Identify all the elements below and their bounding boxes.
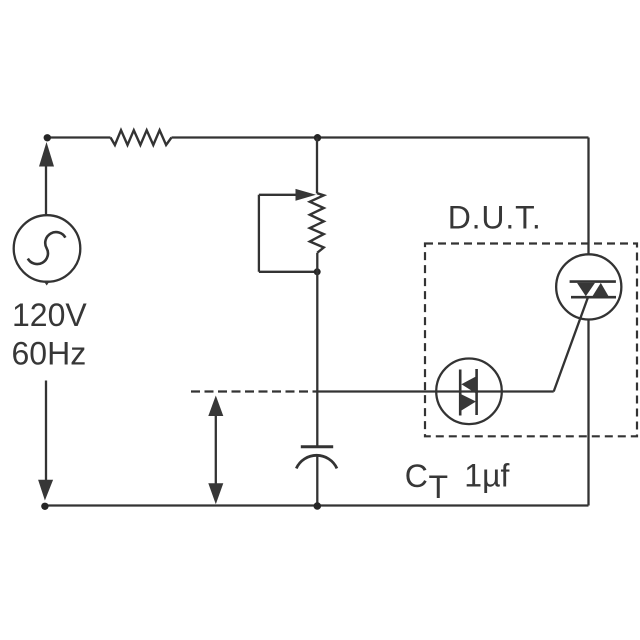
- measurement double arrow: [215, 414, 217, 485]
- wiper loop wire bottom: [259, 271, 316, 273]
- svg-text:1µf: 1µf: [464, 458, 509, 494]
- wiper loop wire left: [258, 195, 260, 272]
- wire right rail upper: [587, 138, 589, 255]
- triac left triangle: [577, 283, 595, 296]
- resistor R1: [111, 130, 172, 145]
- node pot bottom junction: [314, 268, 321, 275]
- wire top rail right: [172, 136, 589, 138]
- diac upper triangle: [461, 376, 476, 394]
- wire to diac: [318, 390, 554, 392]
- triac right triangle: [593, 283, 609, 296]
- wire mid vertical lower: [316, 253, 318, 446]
- wire mid vertical upper: [316, 138, 318, 194]
- wire source bottom lead: [45, 381, 47, 481]
- DUT dashed box: [425, 244, 637, 437]
- wire capacitor to bottom rail: [316, 455, 318, 506]
- wire bottom rail: [45, 504, 589, 506]
- arrow up at source top lead: [39, 142, 54, 167]
- diac left bar: [459, 370, 462, 416]
- diac lower triangle: [460, 394, 476, 412]
- svg-text:D.U.T.: D.U.T.: [448, 200, 542, 236]
- capacitor CT curved plate: [296, 455, 337, 468]
- diac D1 circle: [436, 359, 502, 425]
- arrow down at source bottom lead: [38, 480, 53, 501]
- AC source V1: [14, 215, 81, 282]
- dashed phase line: [191, 390, 318, 392]
- wire diac to gate diagonal: [554, 297, 588, 391]
- wire top rail left: [47, 136, 111, 138]
- triac top bar: [570, 280, 616, 283]
- potentiometer wiper arrow: [259, 194, 297, 196]
- svg-text:C: C: [405, 458, 428, 494]
- svg-text:60Hz: 60Hz: [12, 336, 87, 372]
- node top-left junction: [44, 134, 51, 141]
- node top-mid junction: [314, 134, 321, 141]
- triac Q1 circle: [556, 254, 621, 319]
- svg-text:T: T: [429, 469, 449, 505]
- node bottom-mid junction: [314, 502, 322, 510]
- potentiometer R2 zigzag: [310, 193, 324, 253]
- node bottom-left junction: [41, 503, 48, 510]
- capacitor CT top plate: [301, 445, 333, 448]
- triac bottom bar: [571, 296, 616, 299]
- stub at source bottom: [43, 281, 50, 286]
- diac right bar: [475, 369, 478, 415]
- svg-text:120V: 120V: [12, 297, 87, 333]
- wire source top lead: [45, 166, 47, 216]
- wire right rail lower: [587, 319, 589, 505]
